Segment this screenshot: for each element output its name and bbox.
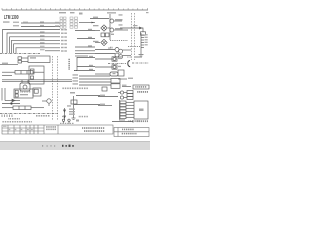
- svg-text:LTM 1300: LTM 1300: [4, 15, 19, 21]
